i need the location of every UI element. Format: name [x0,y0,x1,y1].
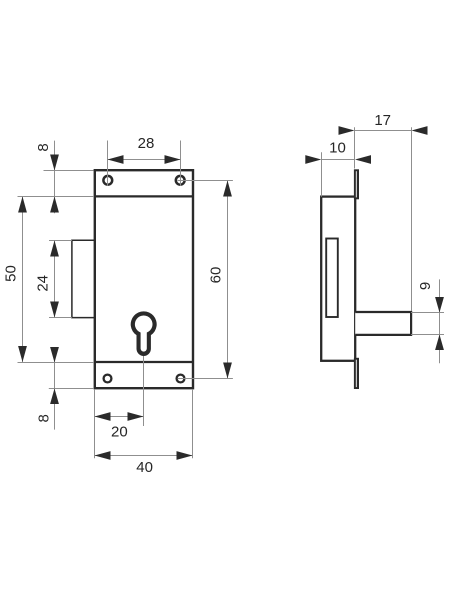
svg-text:9: 9 [417,282,434,290]
dimension 10: right arrow (outside) [355,155,371,164]
dimension 8 top: extension lines [44,170,94,172]
dimension 8 bottom: lower arrow [50,389,59,405]
dimension 24: extension lines [49,240,72,242]
keyhole [131,311,157,356]
face plate outline [95,170,193,388]
svg-text:24: 24 [35,275,52,292]
dimension 28: dimension line [108,159,181,161]
dimension 40: right extension line [192,389,194,458]
dimension 60: bottom arrow [223,363,232,379]
svg-text:8: 8 [35,143,52,151]
svg-text:8: 8 [36,414,53,422]
dimension 40: dimension line [95,455,193,457]
keyhole slot (side) [326,239,338,318]
dimension 50: dimension line [22,197,24,363]
svg-text:10: 10 [329,140,346,157]
svg-text:17: 17 [374,112,391,129]
dimension 10: left extension line [321,152,323,196]
dimension 24: dimension line [54,241,56,318]
screw hole top-right [176,176,185,185]
dimension 20: left extension line [94,389,96,458]
dimension 28: left arrow [108,155,124,164]
keyhole centerline [143,356,145,426]
dimension 28: right arrow [165,155,181,164]
dimension 24: top arrow [50,241,59,257]
dimension 17: right arrow (outside) [412,126,428,135]
dimension 60: dimension line [227,181,229,379]
screw hole bottom-right [177,375,185,383]
top flange section line [95,195,193,197]
dimension 8 top: dimension line [54,141,56,214]
screw hole bottom-left [104,375,112,383]
dimension 17: dimension line [355,130,412,132]
dimension 50: bottom extension line [18,362,95,364]
svg-text:20: 20 [111,423,128,440]
dimension 9: extension lines [411,312,444,314]
face plate edge bottom tab [354,358,359,389]
dimension 8 bottom: upper arrow [50,347,59,363]
dimension 10: dimension line [322,159,355,161]
dimension 10: left arrow (outside) [305,155,321,164]
dimension 8 top: lower arrow [50,197,59,213]
dimension 9: upper arrow [435,297,444,313]
screw hole top-left [103,176,112,185]
dimension 40: right arrow [177,451,193,460]
svg-text:60: 60 [207,267,224,284]
dimension 60: top arrow [223,181,232,197]
dimension 28: extension lines [107,141,109,186]
dimension 20: right arrow [128,412,144,421]
dimension 17: extension lines [354,127,356,168]
dimension 40: left arrow [95,451,111,460]
dimension 24: bottom arrow [50,302,59,318]
dimension 8 bottom: extension line [49,388,94,390]
lock body [321,197,355,361]
svg-text:40: 40 [136,459,153,476]
svg-text:50: 50 [2,265,19,282]
dimension 8 bottom: dimension line [54,347,56,430]
dimension 50: top arrow [18,197,27,213]
dimension 17: left arrow (outside) [339,126,355,135]
face plate edge top tab [354,169,359,199]
dimension 8 top: upper arrow [50,155,59,171]
dimension 20: left arrow [95,412,111,421]
svg-text:28: 28 [138,135,155,152]
bolt [355,312,411,335]
lock case side protrusion [72,240,96,317]
dimension 60: extension lines [178,180,233,182]
dimension 50: bottom arrow [18,346,27,362]
dimension 20: dimension line [95,416,144,418]
dimension 9: dimension line [439,279,441,363]
bottom flange section line [95,361,193,363]
dimension 9: lower arrow [435,335,444,351]
